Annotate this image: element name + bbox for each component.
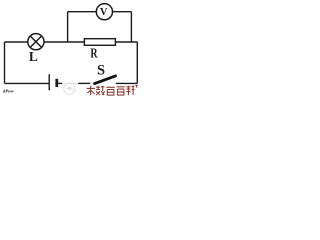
svg-text:S: S: [97, 62, 105, 78]
svg-text:V: V: [100, 7, 108, 18]
svg-text:L: L: [29, 49, 38, 64]
svg-text:dPww: dPww: [3, 89, 15, 94]
svg-text:R: R: [90, 46, 98, 61]
